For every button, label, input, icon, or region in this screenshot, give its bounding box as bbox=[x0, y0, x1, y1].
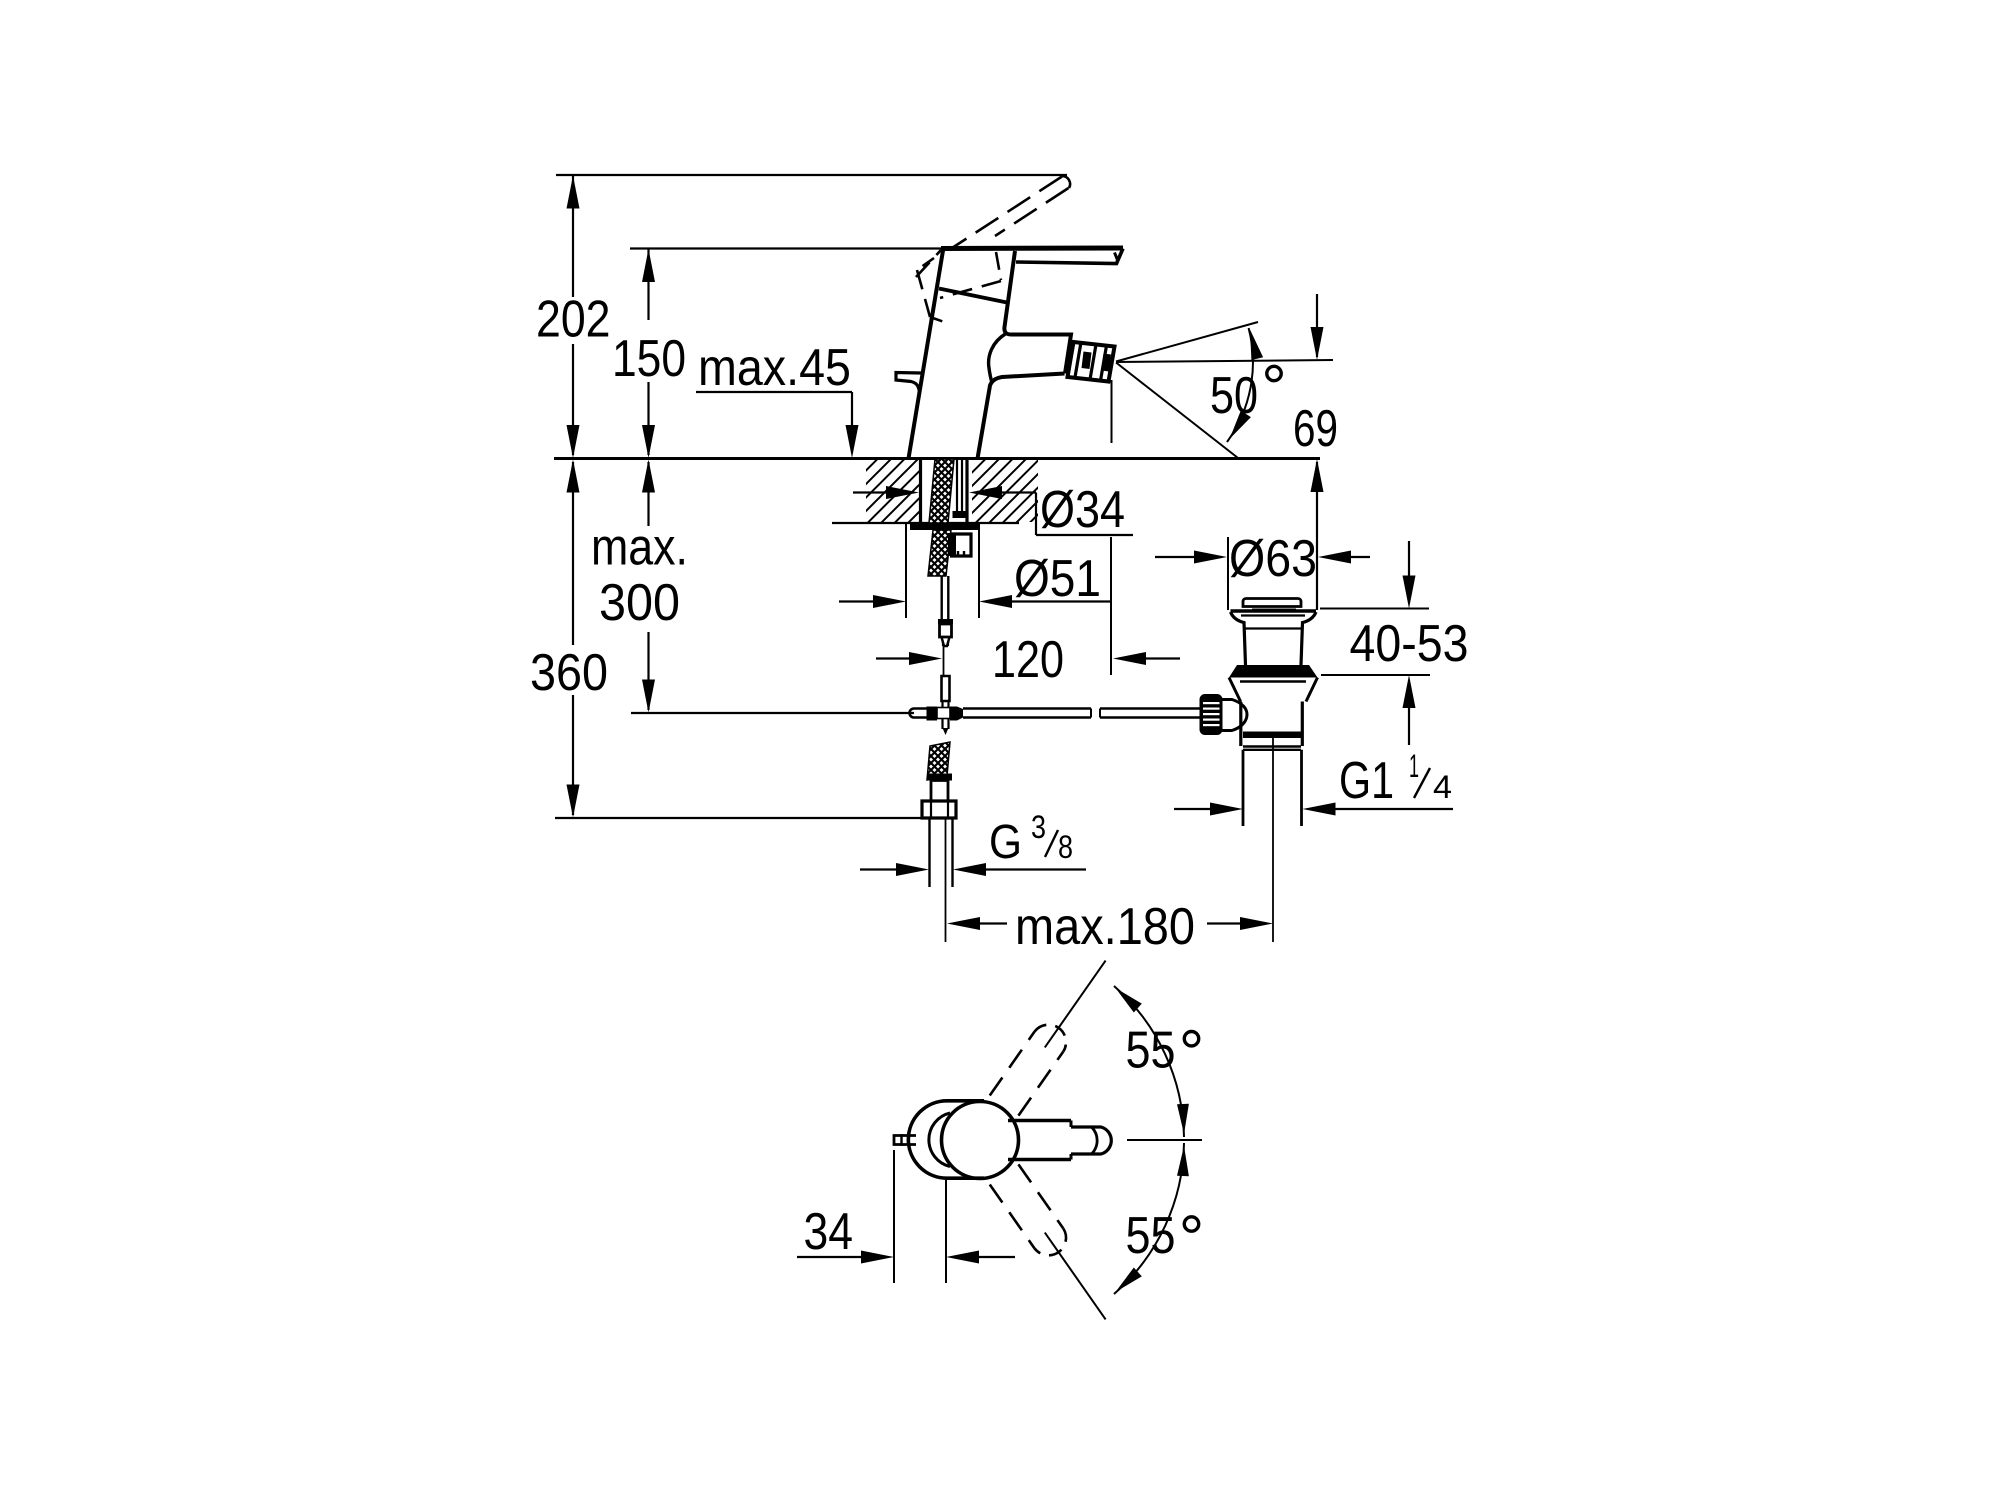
plan view: handle boss circle bbox=[942, 1102, 1019, 1179]
label G3/8 bbox=[989, 809, 1073, 869]
label max.180 bbox=[1015, 898, 1195, 956]
svg-text:3: 3 bbox=[1031, 809, 1046, 845]
hose braid lower segment bbox=[927, 742, 950, 780]
label max. bbox=[591, 519, 688, 577]
label G1 1/4 bbox=[1339, 748, 1452, 810]
55deg line lower bbox=[1045, 1233, 1106, 1320]
dimension 150 vertical line bbox=[642, 249, 655, 459]
label 34 bbox=[804, 1203, 854, 1261]
plan view: inner arc of base bbox=[929, 1113, 950, 1167]
body/spout crease curve bbox=[989, 334, 1006, 383]
faucet body outline bbox=[909, 248, 1124, 459]
extension line: top of handle (150 ref) bbox=[630, 247, 941, 249]
masonry hatch left block bbox=[866, 460, 919, 522]
threaded shank (braided texture) through deck bbox=[929, 459, 954, 523]
pop-up rod vertical through cross bbox=[943, 701, 949, 735]
mounting washer under deck bbox=[910, 523, 979, 531]
360 bottom reference line bbox=[555, 817, 956, 819]
dashed handle capsule lower bbox=[990, 1164, 1066, 1255]
shank sleeve right bbox=[953, 459, 967, 518]
plan view: horizontal center line right bbox=[1127, 1139, 1202, 1141]
svg-text:1: 1 bbox=[1409, 748, 1419, 784]
label 120 bbox=[992, 631, 1064, 689]
55deg arc upper bbox=[1114, 986, 1189, 1137]
masonry hatch right block bbox=[972, 460, 1038, 522]
mounting nut bbox=[948, 533, 971, 556]
svg-text:4: 4 bbox=[1433, 769, 1452, 805]
55deg line upper bbox=[1045, 961, 1106, 1048]
svg-text:120: 120 bbox=[992, 631, 1064, 689]
svg-text:150: 150 bbox=[612, 330, 686, 388]
waste seal ring bbox=[1229, 665, 1318, 678]
dimension 69 vertical line bbox=[1311, 294, 1324, 610]
aerator (spray outlet) bbox=[1068, 342, 1115, 382]
label 50 bbox=[1210, 367, 1258, 425]
cartridge joint line bbox=[939, 289, 1007, 303]
plan view: handle outer band bbox=[1008, 1121, 1071, 1160]
label 55 lower bbox=[1126, 1207, 1176, 1265]
supply pipe (G3/8 tail) bbox=[930, 818, 953, 887]
max.300 bottom reference line (pop-up rod level) bbox=[631, 712, 914, 714]
label 150 bbox=[612, 330, 686, 388]
svg-text:40-53: 40-53 bbox=[1350, 615, 1469, 673]
dashed handle capsule upper bbox=[990, 1025, 1066, 1116]
hose end cap bbox=[927, 774, 952, 781]
handle right end notch bbox=[1115, 253, 1118, 261]
dimension max.300 vertical line bbox=[642, 460, 655, 713]
svg-text:202: 202 bbox=[536, 291, 611, 349]
label diam34 bbox=[1040, 481, 1125, 539]
spray upper boundary line bbox=[1116, 322, 1258, 362]
dimension 120 bbox=[876, 652, 1180, 665]
svg-text:max.: max. bbox=[591, 519, 688, 577]
svg-text:G: G bbox=[989, 816, 1022, 869]
label 55 upper bbox=[1126, 1022, 1176, 1080]
faucet center line (vertical) bbox=[945, 818, 947, 942]
svg-text:8: 8 bbox=[1058, 829, 1073, 865]
50 degree arc with arrows bbox=[1227, 328, 1263, 442]
spray center line bbox=[1116, 360, 1333, 362]
dimension G3/8 arrows bbox=[860, 863, 1086, 876]
dimension 202 vertical line bbox=[567, 175, 580, 458]
plan view: handle tip bbox=[1071, 1127, 1111, 1154]
svg-text:69: 69 bbox=[1293, 400, 1338, 458]
dimension diam51 bbox=[839, 524, 1111, 675]
deck underside line bbox=[832, 522, 1019, 524]
dimension 360 vertical line bbox=[567, 460, 580, 818]
waste center line bbox=[1272, 738, 1274, 942]
svg-text:55: 55 bbox=[1126, 1207, 1176, 1265]
label diam51 bbox=[1014, 550, 1101, 608]
label max.45 bbox=[698, 339, 851, 397]
waste flange below seal bbox=[1229, 678, 1318, 703]
label diam63 bbox=[1229, 530, 1317, 588]
plan view: pop-up pin bbox=[894, 1134, 916, 1146]
svg-text:50: 50 bbox=[1210, 367, 1258, 425]
label 300 bbox=[599, 574, 680, 632]
pop-up horizontal rod left segment bbox=[963, 709, 1091, 718]
raised lever (dashed) upper edge bbox=[952, 177, 1062, 249]
svg-text:360: 360 bbox=[530, 644, 608, 702]
mounting deck line bbox=[554, 457, 1320, 460]
dimension max.180 bbox=[947, 917, 1273, 930]
svg-text:Ø63: Ø63 bbox=[1229, 530, 1317, 588]
supply hose tube bbox=[942, 576, 949, 619]
waste push plate bbox=[1243, 599, 1301, 610]
plan view: body capsule bbox=[908, 1101, 984, 1178]
svg-text:max.45: max.45 bbox=[698, 339, 851, 397]
waste knob boss bbox=[1222, 700, 1248, 731]
hose nut bbox=[922, 801, 956, 818]
pop-up horizontal rod right segment bbox=[1100, 709, 1201, 718]
degree symbol 55 upper bbox=[1184, 1032, 1198, 1046]
threaded shank below washer bbox=[928, 530, 951, 576]
rod coupler bbox=[942, 676, 950, 701]
dimension 34 extension lines bbox=[894, 1150, 946, 1283]
pop-up pull knob on body left bbox=[896, 373, 921, 393]
dimension 40-53 bbox=[1320, 541, 1430, 745]
dimension G1 1/4 bbox=[1174, 803, 1453, 816]
svg-text:max.180: max.180 bbox=[1015, 898, 1195, 956]
hose connector bbox=[938, 619, 953, 646]
label 40-53 bbox=[1350, 615, 1469, 673]
label 202 bbox=[536, 291, 611, 349]
raised lever (dashed) lower edge bbox=[995, 188, 1069, 236]
raised lever (dashed) tip cap bbox=[1062, 176, 1070, 188]
dimension diam34 arrows bbox=[853, 486, 1133, 535]
shank right wall bbox=[965, 459, 968, 523]
degree symbol 55 lower bbox=[1184, 1217, 1198, 1231]
label 360 bbox=[530, 644, 608, 702]
svg-text:G1: G1 bbox=[1339, 752, 1394, 810]
hose end body bbox=[931, 781, 948, 802]
waste tail pipe bbox=[1243, 750, 1302, 826]
svg-text:300: 300 bbox=[599, 574, 680, 632]
label 69 bbox=[1293, 400, 1338, 458]
cross joint block bbox=[910, 707, 964, 721]
waste body bbox=[1241, 702, 1303, 747]
svg-text:55: 55 bbox=[1126, 1022, 1176, 1080]
dimension 34 arrows bbox=[797, 1251, 1015, 1264]
max.45 leader line with arrow to deck bbox=[696, 392, 859, 458]
waste body groove bbox=[1243, 732, 1302, 750]
aerator extension line down bbox=[1111, 380, 1113, 443]
degree symbol of 50 bbox=[1267, 366, 1281, 380]
dimension diam63 bbox=[1155, 537, 1370, 610]
svg-text:Ø51: Ø51 bbox=[1014, 550, 1101, 608]
pop-up cable bbox=[943, 646, 945, 676]
svg-text:34: 34 bbox=[804, 1203, 854, 1261]
shank left wall bbox=[919, 459, 922, 523]
waste trumpet flange bbox=[1231, 611, 1317, 665]
svg-text:Ø34: Ø34 bbox=[1040, 481, 1125, 539]
waste knurled knob bbox=[1201, 695, 1222, 734]
raised lever (dashed) hidden outline inside body bbox=[916, 250, 1001, 323]
extension line: top of raised lever (202 ref) bbox=[556, 174, 1067, 176]
55deg arc lower bbox=[1114, 1143, 1189, 1294]
spray lower boundary line bbox=[1116, 363, 1238, 459]
